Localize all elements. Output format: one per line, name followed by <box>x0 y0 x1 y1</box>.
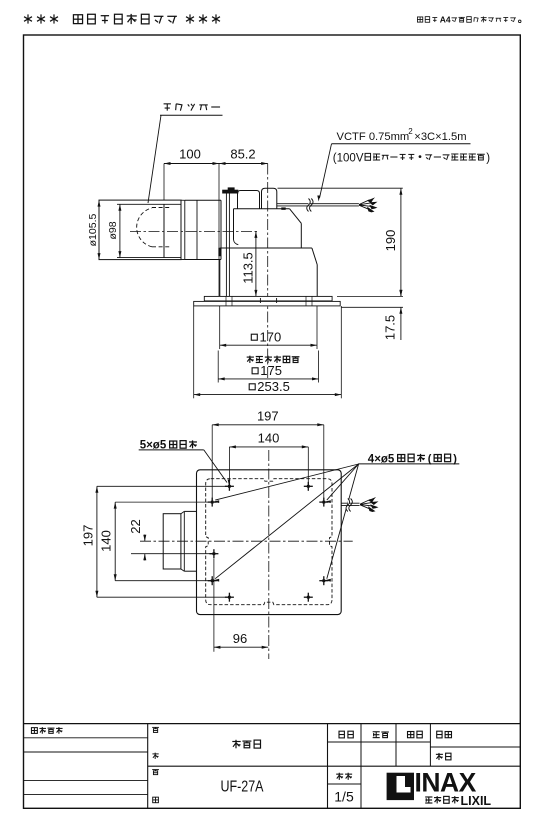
terminal hump <box>262 188 277 209</box>
svg-text:(100V: (100V <box>333 153 364 165</box>
body outline (plan view) <box>197 470 342 615</box>
cable frayed end (side view) <box>359 200 372 210</box>
LIXIL company name <box>425 796 432 798</box>
svg-text:22: 22 <box>128 519 143 533</box>
svg-text:INAX: INAX <box>415 767 477 797</box>
duct sleeve o105.5 <box>99 200 181 260</box>
dimension 197 vertical <box>96 486 98 597</box>
duct spigot <box>185 199 221 201</box>
svg-text:UF-27A: UF-27A <box>221 777 265 795</box>
value: ventilation fan <box>232 741 240 743</box>
ceiling trim panel <box>194 301 341 306</box>
svg-text:): ) <box>453 453 457 465</box>
dimension 85.2 (duct end to center) <box>219 163 268 165</box>
plan view center lines <box>268 450 270 659</box>
duct (plan view) <box>163 514 181 569</box>
header: checked <box>408 732 414 738</box>
svg-text:A4: A4 <box>440 15 451 25</box>
dim arrows o105.5 on duct end <box>98 200 101 207</box>
right section grid <box>360 724 362 809</box>
svg-text:140: 140 <box>258 430 280 445</box>
svg-text:1/5: 1/5 <box>334 788 354 804</box>
svg-text:17.5: 17.5 <box>383 315 398 340</box>
note: original drawing made at A4 (top-right) <box>417 17 422 22</box>
svg-text:197: 197 <box>257 408 279 423</box>
dimension 22 (5th hole offset) <box>131 553 214 555</box>
mounting holes 5xphi5 <box>225 485 234 487</box>
notes rows (left column) <box>24 737 148 739</box>
svg-text:ø105.5: ø105.5 <box>87 214 99 247</box>
dimension 190 (unit height) <box>278 187 403 189</box>
dimension 197 (hole pitch horizontal) <box>212 424 324 426</box>
svg-text:VCTF 0.75mm: VCTF 0.75mm <box>337 131 410 143</box>
svg-text:LIXIL: LIXIL <box>461 794 492 808</box>
svg-text:(: ( <box>428 453 432 465</box>
duct center line <box>130 230 258 232</box>
fan body outline <box>234 208 290 210</box>
header: drawing <box>339 731 344 738</box>
header: scale <box>336 773 343 775</box>
dimension 100 (duct length) <box>164 163 219 165</box>
motor cap <box>238 191 260 209</box>
header: date <box>436 753 443 755</box>
dimension 96 <box>213 559 215 652</box>
hanger bracket <box>223 190 239 193</box>
labels: product name / product number <box>152 726 159 728</box>
svg-text:113.5: 113.5 <box>241 252 256 284</box>
note: this drawing is for reference (top-left) <box>27 14 29 23</box>
power cable (plan view) <box>341 502 359 504</box>
duct step joint <box>184 200 186 259</box>
dimension 17.5 (below-ceiling projection) <box>337 295 403 297</box>
body mounting flange <box>204 296 332 301</box>
svg-text:140: 140 <box>99 530 114 552</box>
label: shutter (katakana) with underline and leader <box>164 103 171 105</box>
svg-text:2: 2 <box>408 127 413 136</box>
svg-text:×3C×1.5m: ×3C×1.5m <box>414 131 466 143</box>
header: in charge <box>373 731 380 733</box>
label: ceiling opening size <box>247 356 254 358</box>
duct tube o98 lines <box>117 203 181 205</box>
flange clips <box>225 297 227 306</box>
INAX logo mark <box>387 773 414 800</box>
dimension 170 (body opening) <box>219 306 221 349</box>
mounting holes 4xphi5 <box>208 501 217 503</box>
header: drawing number <box>437 731 442 738</box>
body top tab <box>282 208 286 210</box>
svg-text:175: 175 <box>260 363 282 378</box>
svg-text:170: 170 <box>260 329 282 344</box>
leader to cable <box>320 144 332 198</box>
svg-text:253.5: 253.5 <box>257 379 290 394</box>
svg-text:197: 197 <box>81 525 96 547</box>
dimension 175 (ceiling opening) <box>217 351 219 383</box>
dimension 253.5 (trim panel) <box>193 306 195 398</box>
svg-text:190: 190 <box>383 230 398 252</box>
svg-text:): ) <box>486 153 490 165</box>
svg-text:ø98: ø98 <box>107 221 119 239</box>
title block outer lines <box>24 723 521 725</box>
svg-text:85.2: 85.2 <box>230 147 255 162</box>
dimension 140 (hole pitch horizontal inner) <box>229 446 308 448</box>
unit vertical center line <box>267 164 269 381</box>
shutter flap (dashed arc) <box>137 208 152 247</box>
svg-text:100: 100 <box>179 147 201 162</box>
svg-text:96: 96 <box>233 631 247 646</box>
dimension 113.5 (center to ceiling) <box>255 231 257 296</box>
grille inner edge (dashed) <box>206 479 332 605</box>
dimension 140 vertical <box>114 502 116 581</box>
dim o98 <box>119 204 121 257</box>
label: special notes <box>31 728 37 734</box>
power cable (side view) <box>277 203 359 205</box>
